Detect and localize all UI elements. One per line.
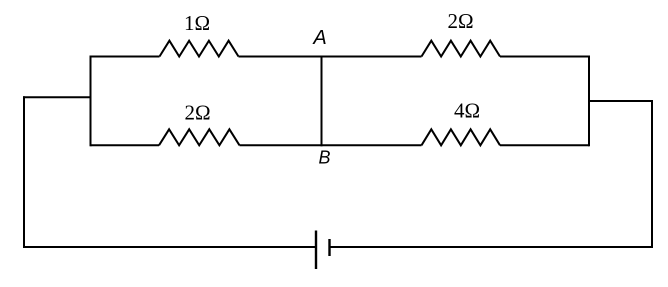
- wire: top branch left segment: [91, 56, 160, 58]
- resistor R3 2Ω (bottom-left zigzag): [159, 129, 240, 145]
- svg-text:2Ω: 2Ω: [447, 9, 473, 33]
- battery V1 positive plate (long): [315, 231, 317, 270]
- resistor R4 4Ω (bottom-right zigzag): [422, 129, 501, 145]
- wire: right vertical bus joining branches: [588, 56, 590, 147]
- wire: left stub to outer loop: [23, 96, 92, 98]
- wire: top branch middle segment through node A: [239, 56, 422, 58]
- wire: bottom branch middle segment through node B: [240, 144, 422, 146]
- wire: left vertical bus joining branches: [90, 56, 92, 147]
- wire: node A to node B connector: [321, 56, 323, 147]
- wire: bottom wire right of battery: [330, 246, 654, 248]
- svg-text:2Ω: 2Ω: [184, 101, 210, 125]
- wire: right outer vertical: [651, 100, 653, 248]
- resistor R1 1Ω (top-left zigzag): [160, 41, 239, 57]
- svg-text:A: A: [312, 27, 326, 49]
- wire: left outer vertical: [23, 96, 25, 248]
- wire: bottom branch right segment: [500, 144, 589, 146]
- wire: top branch right segment: [500, 56, 589, 58]
- resistor R2 2Ω (top-right zigzag): [422, 41, 501, 57]
- svg-text:4Ω: 4Ω: [454, 99, 480, 123]
- wire: bottom wire left of battery: [23, 246, 316, 248]
- wire: right stub to outer loop: [588, 100, 653, 102]
- svg-text:1Ω: 1Ω: [184, 11, 210, 35]
- battery V1 negative plate (short): [328, 239, 330, 256]
- wire: bottom branch left segment: [91, 144, 160, 146]
- svg-text:B: B: [318, 148, 330, 168]
